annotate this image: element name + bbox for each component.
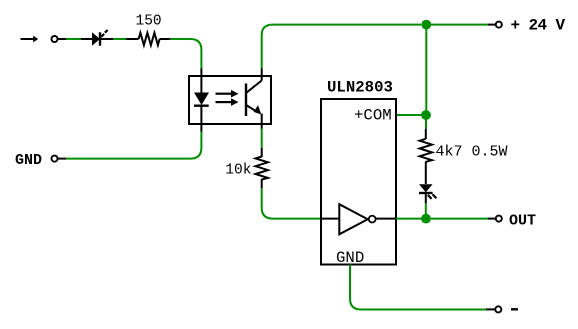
pin stub: opto cathode	[200, 124, 202, 132]
terminal: +24V	[496, 22, 502, 28]
IC U2 ULN2803 box	[321, 99, 396, 265]
svg-text:ULN2803: ULN2803	[327, 79, 393, 97]
wire: +COM node down to resistor R3	[425, 115, 427, 129]
svg-text:OUT: OUT	[509, 213, 536, 230]
inverter gate U2A	[339, 204, 375, 234]
junction node: OUT	[421, 214, 431, 224]
pin stub: +24V terminal	[488, 24, 496, 26]
wire: gate output to OUT node	[396, 218, 426, 220]
pin stub: OUT terminal	[488, 218, 496, 220]
wire: GND terminal to opto cathode	[66, 132, 201, 159]
optocoupler U1 box	[189, 76, 271, 124]
pin stub: opto emitter	[261, 124, 263, 129]
wire: rail junction to +24V terminal	[431, 24, 488, 26]
wire: LED D2 to OUT node	[425, 203, 427, 219]
gate input line inside U2	[321, 218, 339, 220]
junction node: +COM	[421, 110, 431, 120]
wire: ULN2803 GND pin to minus terminal	[350, 265, 487, 310]
terminal: OUT	[496, 216, 502, 222]
opto coupling arrows	[216, 90, 239, 106]
opto internal LED	[194, 76, 209, 124]
label: minus	[511, 308, 518, 310]
LED D1 (input indicator)	[81, 30, 113, 46]
pin stub: input terminal	[58, 38, 66, 40]
wire: opto collector to +24V rail (corner)	[262, 25, 422, 69]
svg-text:10k: 10k	[225, 163, 252, 179]
terminal: minus	[495, 306, 501, 312]
wire: OUT node to OUT terminal	[431, 218, 488, 220]
svg-text:150: 150	[136, 14, 162, 30]
resistor R1 150	[126, 33, 170, 45]
pin stub: GND terminal	[58, 158, 66, 160]
svg-text:+ 24 V: + 24 V	[511, 17, 566, 35]
opto phototransistor	[246, 76, 262, 124]
pin stub: minus terminal	[486, 308, 495, 310]
terminal: GND	[51, 156, 57, 162]
wire: input terminal to LED D1	[66, 38, 81, 40]
svg-text:+COM: +COM	[354, 107, 392, 125]
wire: LED D1 to resistor R1	[113, 38, 126, 40]
input arrow	[21, 36, 39, 43]
LED D2 (output indicator)	[419, 184, 436, 203]
junction node: +24V rail	[421, 20, 431, 30]
wire: R2 to ULN2803 input (corner)	[262, 188, 321, 219]
svg-text:GND: GND	[15, 152, 42, 169]
wire: R1 to optocoupler anode (corner)	[170, 39, 201, 69]
gate output line inside U2	[376, 218, 396, 220]
resistor R3 4k7	[420, 129, 432, 184]
wire: +COM node to ULN2803 +COM pin	[396, 114, 426, 116]
svg-text:4k7 0.5W: 4k7 0.5W	[436, 144, 508, 161]
wire: +24V rail down to +COM node	[425, 25, 427, 115]
resistor R2 10k	[256, 148, 268, 188]
terminal: input	[51, 36, 57, 42]
svg-text:GND: GND	[336, 249, 364, 267]
wire: opto emitter to resistor R2	[261, 129, 263, 149]
pin stub: opto collector	[261, 69, 263, 77]
pin stub: opto anode	[200, 69, 202, 78]
